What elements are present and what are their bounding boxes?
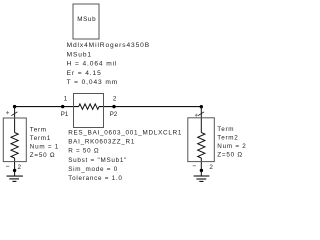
svg-text:Term: Term	[217, 126, 234, 133]
svg-text:Mdlx4MilRogers4350B: Mdlx4MilRogers4350B	[67, 42, 150, 49]
svg-text:Z=50 Ω: Z=50 Ω	[30, 152, 56, 159]
svg-text:Term: Term	[30, 127, 47, 134]
svg-text:BAI_RK0603ZZ_R1: BAI_RK0603ZZ_R1	[68, 139, 135, 146]
svg-text:Num = 1: Num = 1	[30, 144, 59, 151]
svg-text:R = 50 Ω: R = 50 Ω	[68, 148, 99, 155]
svg-text:Z=50 Ω: Z=50 Ω	[217, 151, 243, 158]
svg-text:Subst = "MSub1": Subst = "MSub1"	[68, 157, 127, 164]
svg-text:2: 2	[18, 164, 22, 171]
svg-text:MSub1: MSub1	[67, 51, 92, 58]
svg-text:2: 2	[209, 164, 213, 171]
svg-text:T = 0,043 mm: T = 0,043 mm	[67, 79, 119, 86]
svg-text:MSub: MSub	[77, 16, 96, 23]
svg-text:2: 2	[113, 96, 117, 103]
svg-text:Tolerance = 1.0: Tolerance = 1.0	[68, 175, 122, 182]
svg-text:1: 1	[64, 95, 68, 102]
svg-text:Num = 2: Num = 2	[217, 143, 246, 150]
svg-text:H = 4.064 mil: H = 4.064 mil	[67, 61, 118, 68]
svg-text:RES_BAI_0603_001_MDLXCLR1: RES_BAI_0603_001_MDLXCLR1	[68, 130, 182, 137]
svg-text:P1: P1	[61, 111, 69, 118]
svg-text:Sim_mode = 0: Sim_mode = 0	[68, 166, 118, 173]
svg-text:Er = 4.15: Er = 4.15	[67, 70, 102, 77]
svg-text:P2: P2	[110, 111, 118, 118]
svg-text:Term2: Term2	[217, 134, 238, 141]
svg-text:Term1: Term1	[30, 135, 51, 142]
